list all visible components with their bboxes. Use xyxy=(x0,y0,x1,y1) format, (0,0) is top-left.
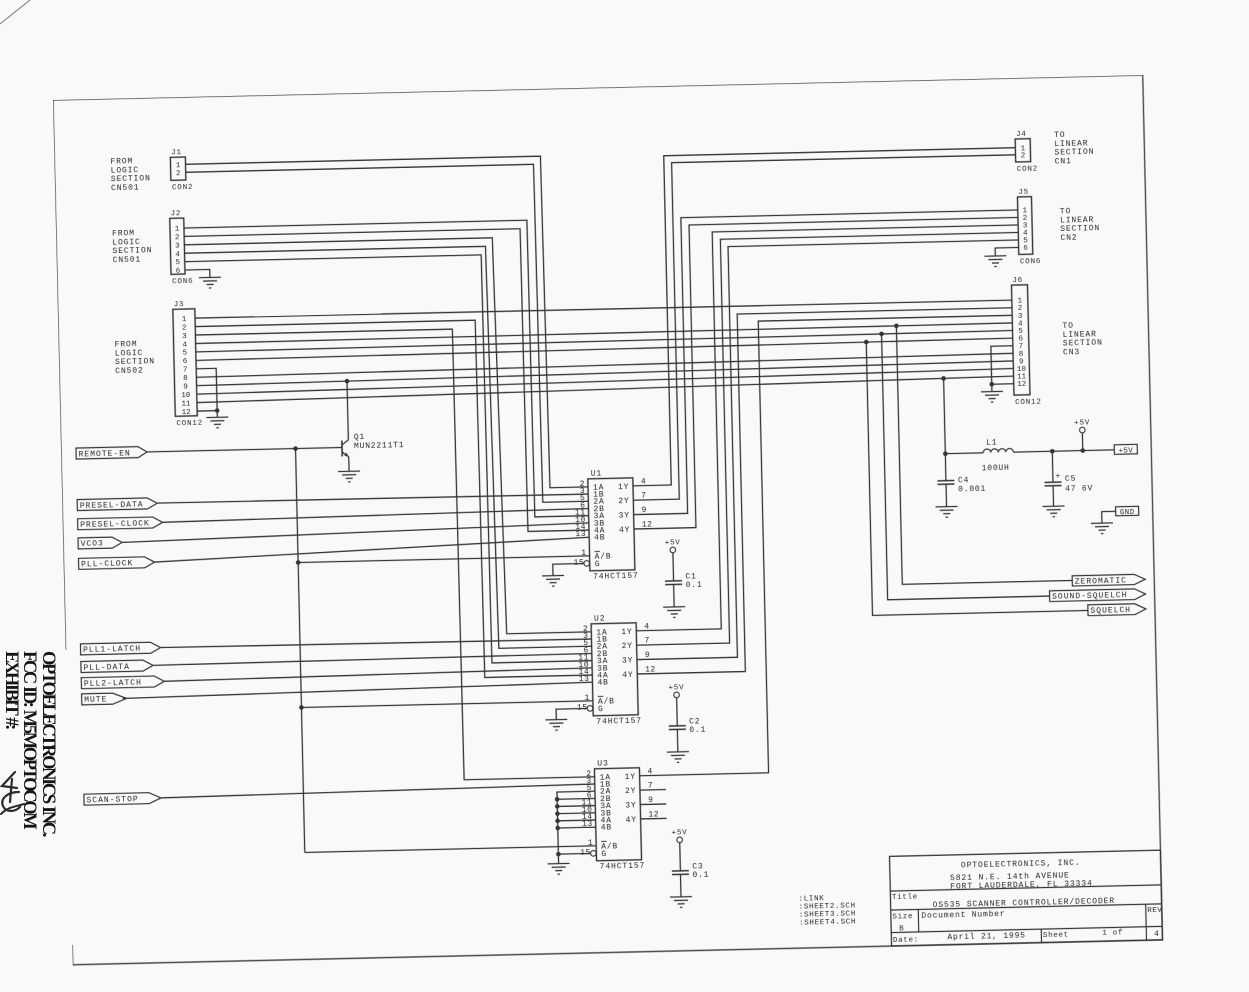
svg-text:6: 6 xyxy=(176,268,181,276)
net flag VCO3 xyxy=(78,537,122,549)
connector J1 (CON2) xyxy=(170,149,193,192)
svg-text:CN501: CN501 xyxy=(111,183,140,193)
transistor Q1 MUN2211T1 xyxy=(342,432,405,457)
wire C3 to ground xyxy=(679,874,682,896)
svg-text:J4: J4 xyxy=(1016,131,1027,139)
wire PLL1-LATCH to U2 1B xyxy=(161,638,592,649)
wire U3 2B ground stub xyxy=(557,797,595,800)
svg-text:CON12: CON12 xyxy=(176,420,203,429)
svg-text:REMOTE-EN: REMOTE-EN xyxy=(79,449,131,459)
net flag SCAN-STOP xyxy=(84,792,161,805)
svg-text:Title: Title xyxy=(892,893,918,902)
svg-text:SECTION: SECTION xyxy=(1063,339,1103,349)
svg-text:FORT LAUDERDALE, FL 33334: FORT LAUDERDALE, FL 33334 xyxy=(950,879,1093,891)
svg-text:Sheet: Sheet xyxy=(1043,931,1069,940)
svg-text:4: 4 xyxy=(1154,930,1160,939)
svg-text:1: 1 xyxy=(175,226,180,234)
wire U2 G to ground xyxy=(556,708,587,719)
IC U3 74HCT157 xyxy=(578,759,645,872)
svg-text:+5V: +5V xyxy=(668,684,684,692)
svg-text:2Y: 2Y xyxy=(625,787,636,796)
ground GND flag xyxy=(1091,523,1113,534)
svg-text:1Y: 1Y xyxy=(625,773,636,782)
svg-text:3Y: 3Y xyxy=(619,512,630,521)
+5V symbol for C1 xyxy=(665,539,681,553)
capacitor C2 0.1 xyxy=(669,717,707,735)
svg-text:C4: C4 xyxy=(958,476,969,485)
net flag PLL-DATA xyxy=(81,660,153,673)
connector J3 (CON12) xyxy=(173,301,203,429)
net flag PRESEL-DATA xyxy=(77,498,157,511)
ground under J3 xyxy=(206,417,228,428)
svg-text:April 21, 1995: April 21, 1995 xyxy=(947,931,1026,942)
wire J2.6 to ground xyxy=(185,269,210,278)
wire select to U3 A/B xyxy=(305,846,596,853)
ground under J5 xyxy=(984,256,1006,267)
IC U1 74HCT157 xyxy=(571,469,638,582)
wire C4 to ground xyxy=(945,484,948,506)
svg-text:MUTE: MUTE xyxy=(84,696,107,706)
FCC exhibit margin text (rotated) xyxy=(2,651,58,835)
svg-text:CN502: CN502 xyxy=(115,366,144,376)
wire select to U1 A/B xyxy=(298,556,589,563)
svg-text:4B: 4B xyxy=(597,679,608,688)
wire PLL-CLOCK to U1 4B xyxy=(154,537,589,562)
wire MUTE to U2 4B xyxy=(123,682,593,698)
svg-text:CON2: CON2 xyxy=(172,184,193,192)
wire J3.4 to J6.4 (ZEROMATIC net) xyxy=(196,323,1013,344)
wire U2 4Y to J6.2 xyxy=(629,308,1020,674)
svg-text:0.1: 0.1 xyxy=(686,581,703,590)
wire J5.6 to ground xyxy=(995,247,1019,256)
wire J3.10 to J6.10 xyxy=(197,369,1014,395)
note text for J5 xyxy=(1060,207,1101,243)
wire J3.6 to J6.6 (SQUELCH net) xyxy=(196,338,1013,360)
svg-text:12: 12 xyxy=(1017,381,1026,389)
wire J3.5 to J6.5 (SOUND-SQUELCH net) xyxy=(196,331,1013,352)
wire U3 3B ground stub xyxy=(557,812,595,815)
svg-text:PLL-CLOCK: PLL-CLOCK xyxy=(81,559,133,569)
svg-text:C5: C5 xyxy=(1065,475,1076,484)
svg-text:G: G xyxy=(601,850,607,859)
wire +5V symbol drop xyxy=(1081,433,1083,451)
wire Q1 emitter to ground xyxy=(348,457,350,471)
svg-text:2: 2 xyxy=(175,234,180,242)
net flag PLL2-LATCH xyxy=(81,676,164,689)
svg-text:12: 12 xyxy=(182,409,191,417)
svg-text:Document Number: Document Number xyxy=(921,910,1005,921)
node B (C5) xyxy=(1050,449,1055,454)
svg-text:Size: Size xyxy=(892,913,913,921)
svg-text:1: 1 xyxy=(176,162,181,170)
IC U2 74HCT157 xyxy=(575,614,642,727)
wire J6.12 to ground xyxy=(992,383,1014,386)
net flag SQUELCH xyxy=(1088,604,1146,617)
svg-text:0.1: 0.1 xyxy=(692,871,709,880)
svg-text:CON2: CON2 xyxy=(1017,165,1038,173)
svg-text:CN2: CN2 xyxy=(1060,234,1077,243)
wire GND flag to ground xyxy=(1102,511,1116,523)
wire U1 1Y to J4.1 xyxy=(625,148,1022,486)
wire U2 1Y to J5.3 xyxy=(627,225,1027,631)
svg-text:J2: J2 xyxy=(171,210,182,218)
wire J3.9 to J6.9 (Q1 collector net) xyxy=(196,361,1013,386)
net flag PLL-CLOCK xyxy=(78,557,154,570)
svg-text:CN501: CN501 xyxy=(113,255,142,265)
capacitor C5 47 6V (polarized) xyxy=(1044,450,1093,494)
svg-text:PLL-DATA: PLL-DATA xyxy=(83,663,130,673)
wire select to U2 A/B xyxy=(301,701,592,708)
svg-text:PRESEL-CLOCK: PRESEL-CLOCK xyxy=(80,519,150,530)
capacitor C3 0.1 xyxy=(672,862,710,880)
svg-text:1: 1 xyxy=(182,316,187,324)
svg-text:+5V: +5V xyxy=(1118,447,1133,455)
wire VCO3 to U1 3B xyxy=(122,523,589,543)
svg-text:CON12: CON12 xyxy=(1015,398,1042,407)
wire U3 1Y to J6.3 xyxy=(629,315,1022,775)
note text for J1 xyxy=(110,157,151,193)
wire U3 unused input ground column xyxy=(557,791,597,863)
svg-text:3: 3 xyxy=(175,243,180,251)
note text for J2 xyxy=(112,229,153,265)
wire L1 to +5V flag xyxy=(1013,450,1114,452)
svg-text:PRESEL-DATA: PRESEL-DATA xyxy=(80,500,144,510)
wire J1.2 to U1 2A xyxy=(186,163,589,510)
ground U3 inputs xyxy=(548,863,570,874)
wire J3.11 to J6.11 (+5V net) xyxy=(197,376,1014,402)
wire J3.7 ground jumper xyxy=(196,368,217,417)
handwritten exhibit mark xyxy=(0,766,40,836)
wire J6.6 tap to SQUELCH xyxy=(866,337,1088,615)
svg-text:100UH: 100UH xyxy=(982,464,1010,474)
net flag PLL1-LATCH xyxy=(80,642,160,655)
wire U1 3Y to J5.1 xyxy=(627,210,1025,515)
svg-text:+: + xyxy=(1055,472,1060,481)
wire C1 to ground xyxy=(673,584,676,606)
wire +5V to C2 xyxy=(676,698,679,726)
svg-text:5: 5 xyxy=(175,259,180,267)
wire U1 2Y to J4.2 xyxy=(626,155,1024,500)
net flag MUTE xyxy=(82,693,127,705)
ground C3 xyxy=(670,897,692,908)
svg-text:3Y: 3Y xyxy=(625,801,636,810)
svg-text:U2: U2 xyxy=(594,615,606,624)
wire J3.2 to U2 4A xyxy=(195,318,592,684)
wire J2.2 to U1 4A xyxy=(184,227,589,539)
wire U3 4Y stub xyxy=(641,817,667,820)
svg-text:PLL1-LATCH: PLL1-LATCH xyxy=(83,645,141,655)
wire J2.5 to U2 3A xyxy=(185,253,592,670)
note text for J3 xyxy=(115,340,156,376)
node +5V tap xyxy=(1080,448,1085,453)
svg-text:+5V: +5V xyxy=(1074,419,1090,427)
wire U3 2Y stub xyxy=(640,789,666,792)
svg-text:0.001: 0.001 xyxy=(958,485,986,495)
wire J2.1 to U1 3A xyxy=(184,219,589,525)
svg-text:L1: L1 xyxy=(986,439,997,448)
wire J2.4 to U2 2A xyxy=(185,244,592,655)
wire C5 to ground xyxy=(1052,486,1054,506)
svg-text:MUN2211T1: MUN2211T1 xyxy=(354,441,405,451)
+5V symbol main supply xyxy=(1074,419,1090,433)
wire U2 2Y to J5.4 xyxy=(627,232,1027,645)
wire REMOTE-EN select vertical xyxy=(296,449,305,853)
svg-text:OS535 SCANNER CONTROLLER/DECOD: OS535 SCANNER CONTROLLER/DECODER xyxy=(933,897,1116,910)
wire J6.4 tap to ZEROMATIC xyxy=(896,322,1072,584)
svg-text:4: 4 xyxy=(182,341,187,349)
wire U1 4Y to J5.2 xyxy=(627,217,1025,529)
GND net flag xyxy=(1116,506,1139,517)
capacitor C4 0.001 xyxy=(937,453,986,495)
wire J3.1 to J6.1 xyxy=(195,299,1012,318)
svg-text:J1: J1 xyxy=(171,149,182,157)
svg-text:4B: 4B xyxy=(601,824,612,833)
svg-text:+5V: +5V xyxy=(671,829,687,837)
svg-text:3Y: 3Y xyxy=(622,656,633,665)
svg-text:Q1: Q1 xyxy=(354,433,365,442)
connector J4 (CON2) xyxy=(1015,131,1038,174)
svg-text:B: B xyxy=(899,925,904,933)
svg-text:5: 5 xyxy=(182,350,187,358)
svg-text:J3: J3 xyxy=(174,301,185,309)
ground Q1 emitter xyxy=(338,471,360,482)
wire J6.5 tap to SOUND-SQUELCH xyxy=(882,330,1050,600)
drawing border frame xyxy=(53,75,1162,965)
wire PRESEL-DATA to U1 1B xyxy=(157,493,588,504)
svg-text:J6: J6 xyxy=(1012,277,1023,285)
svg-text:11: 11 xyxy=(181,400,191,408)
wire U2 3Y to J5.5 xyxy=(628,240,1028,660)
net flag SOUND-SQUELCH xyxy=(1049,589,1145,602)
svg-text:74HCT157: 74HCT157 xyxy=(596,717,642,727)
wire J3.12 to ground xyxy=(197,410,217,412)
svg-text:74HCT157: 74HCT157 xyxy=(600,862,646,872)
svg-text:8: 8 xyxy=(183,375,188,383)
svg-text:GND: GND xyxy=(1120,509,1135,517)
svg-text:+5V: +5V xyxy=(665,539,681,547)
note text for J6 xyxy=(1062,321,1103,357)
wire PRESEL-CLOCK to U1 2B xyxy=(163,508,589,522)
svg-text:1 of: 1 of xyxy=(1102,929,1123,937)
svg-text:0.1: 0.1 xyxy=(689,726,706,735)
wire U3 3A ground stub xyxy=(557,805,595,808)
svg-text:2: 2 xyxy=(182,324,187,332)
ground under J2 xyxy=(199,277,221,288)
connector J5 (CON6) xyxy=(1017,188,1041,266)
svg-text:J5: J5 xyxy=(1018,189,1029,197)
ground under J6 xyxy=(981,391,1003,402)
wire +5V to C3 xyxy=(679,843,682,871)
net flag ZEROMATIC xyxy=(1072,574,1145,587)
net flag REMOTE-EN xyxy=(76,446,147,459)
connector J2 (CON6) xyxy=(170,210,194,286)
ground C1 xyxy=(663,607,685,618)
wire J6.7 ground jumper xyxy=(991,346,1014,392)
svg-text:REV: REV xyxy=(1147,907,1162,915)
wire REMOTE-EN flag to Q1 base xyxy=(147,447,342,451)
svg-text:OPTOELECTRONICS, INC.: OPTOELECTRONICS, INC. xyxy=(961,859,1081,871)
connector J6 (CON12) xyxy=(1011,277,1041,408)
svg-text:10: 10 xyxy=(181,392,191,400)
wire U3 3Y stub xyxy=(640,803,666,806)
inductor L1 100UH xyxy=(981,438,1014,473)
wire Q1 collector to J3.9 net xyxy=(347,381,348,440)
svg-text:PLL2-LATCH: PLL2-LATCH xyxy=(84,679,142,689)
svg-text:2Y: 2Y xyxy=(618,497,629,506)
wire PLL2-LATCH to U2 3B xyxy=(164,668,592,681)
wire node B to C5 xyxy=(1051,451,1054,482)
note text for J4 xyxy=(1054,130,1095,166)
svg-text:SECTION: SECTION xyxy=(1060,224,1100,234)
+5V symbol for C3 xyxy=(671,829,687,843)
svg-text:CON6: CON6 xyxy=(1020,258,1041,266)
wire J3.3 to U3 1A xyxy=(195,326,594,786)
svg-text:VCO3: VCO3 xyxy=(81,540,104,550)
svg-text:SQUELCH: SQUELCH xyxy=(1090,606,1131,616)
wire PLL-DATA to U2 2B xyxy=(153,653,592,665)
ground C2 xyxy=(667,752,689,763)
svg-text:3: 3 xyxy=(182,333,187,341)
svg-text:2: 2 xyxy=(1021,152,1026,160)
+5V symbol for C2 xyxy=(668,684,684,698)
svg-text:1Y: 1Y xyxy=(618,483,629,492)
wire J3.8 to J6.8 xyxy=(196,353,1013,377)
wire node A to C4 xyxy=(944,454,947,481)
svg-text:Date:: Date: xyxy=(893,936,919,945)
ground U2 G xyxy=(545,719,567,730)
svg-text:4: 4 xyxy=(175,251,180,259)
svg-text:74HCT157: 74HCT157 xyxy=(593,572,639,582)
wire J1.1 to U1 1A xyxy=(186,155,588,496)
svg-text::SHEET4.SCH: :SHEET4.SCH xyxy=(799,918,856,927)
svg-text:6: 6 xyxy=(183,358,188,366)
svg-text:CN3: CN3 xyxy=(1063,348,1080,357)
svg-text:CON6: CON6 xyxy=(172,278,193,286)
title block xyxy=(890,850,1163,946)
ground C4 xyxy=(936,506,958,517)
wire +5V to C1 xyxy=(672,553,675,581)
svg-text:SCAN-STOP: SCAN-STOP xyxy=(86,795,138,805)
capacitor C1 0.1 xyxy=(665,572,703,590)
svg-text:1Y: 1Y xyxy=(621,628,632,637)
ground C5 xyxy=(1043,506,1065,517)
node A (L1 input) xyxy=(943,451,948,456)
svg-text:4Y: 4Y xyxy=(622,671,633,680)
svg-text:2Y: 2Y xyxy=(622,642,633,651)
+5V net flag xyxy=(1114,444,1137,455)
wire SCAN-STOP to U3 1B xyxy=(159,784,595,798)
wire U1 G to ground xyxy=(553,563,584,575)
svg-text:7: 7 xyxy=(183,367,188,375)
svg-text:4Y: 4Y xyxy=(626,816,637,825)
svg-text:CN1: CN1 xyxy=(1055,157,1072,166)
svg-text:4Y: 4Y xyxy=(619,526,630,535)
svg-text:2: 2 xyxy=(176,170,181,178)
svg-text:SOUND-SQUELCH: SOUND-SQUELCH xyxy=(1052,591,1128,602)
wire U3 G ground stub xyxy=(558,852,590,855)
ground U1 G xyxy=(542,575,564,586)
wire U3 4A ground stub xyxy=(558,819,596,822)
svg-text:U1: U1 xyxy=(591,470,603,479)
svg-text:G: G xyxy=(595,560,601,569)
wire J2.3 to U2 1A xyxy=(184,236,591,641)
sheet link notes xyxy=(798,894,856,927)
svg-text:4B: 4B xyxy=(594,534,605,543)
svg-text:SECTION: SECTION xyxy=(1054,148,1094,158)
net flag PRESEL-CLOCK xyxy=(78,517,163,530)
wire C2 to ground xyxy=(676,729,679,751)
wire J6.11 tap down to L1 xyxy=(944,378,946,453)
svg-text:47 6V: 47 6V xyxy=(1065,484,1093,494)
svg-text:G: G xyxy=(598,705,604,714)
wire U3 4B ground stub xyxy=(558,826,596,829)
svg-text:9: 9 xyxy=(183,383,188,391)
wire node A to L1 xyxy=(945,452,983,455)
svg-text:ZEROMATIC: ZEROMATIC xyxy=(1075,576,1127,586)
svg-text:U3: U3 xyxy=(597,759,609,768)
svg-text:6: 6 xyxy=(1023,245,1028,253)
